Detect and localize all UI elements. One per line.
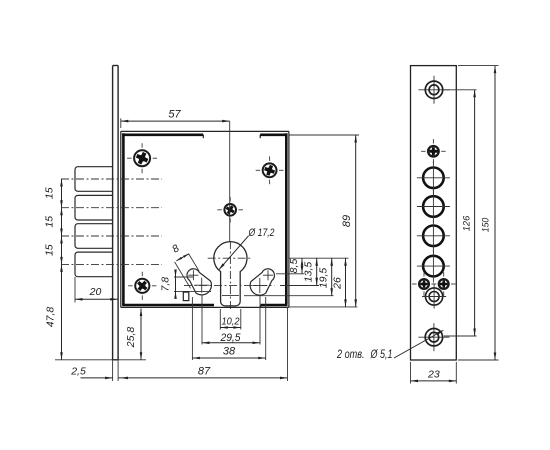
svg-text:25,8: 25,8 bbox=[125, 327, 137, 349]
svg-text:126: 126 bbox=[461, 215, 472, 231]
svg-text:89: 89 bbox=[341, 215, 353, 227]
svg-text:150: 150 bbox=[481, 217, 492, 232]
svg-text:47,8: 47,8 bbox=[45, 307, 57, 328]
svg-text:8: 8 bbox=[170, 242, 182, 255]
svg-text:20: 20 bbox=[89, 286, 102, 298]
svg-text:2 отв.: 2 отв. bbox=[336, 349, 364, 361]
svg-text:13,5: 13,5 bbox=[303, 262, 315, 283]
svg-text:38: 38 bbox=[223, 346, 236, 358]
svg-text:7,8: 7,8 bbox=[160, 277, 172, 292]
svg-text:57: 57 bbox=[168, 109, 181, 121]
svg-text:29,5: 29,5 bbox=[220, 332, 242, 344]
svg-text:10,2: 10,2 bbox=[222, 315, 240, 327]
svg-text:15: 15 bbox=[44, 244, 56, 256]
svg-text:8,5: 8,5 bbox=[288, 259, 300, 274]
svg-text:Ø 5,1: Ø 5,1 bbox=[370, 349, 393, 361]
svg-text:2,5: 2,5 bbox=[70, 366, 86, 378]
svg-text:Ø 17,2: Ø 17,2 bbox=[248, 227, 275, 239]
svg-text:23: 23 bbox=[427, 368, 440, 380]
svg-text:19,5: 19,5 bbox=[318, 268, 330, 289]
svg-text:87: 87 bbox=[198, 365, 211, 377]
svg-text:15: 15 bbox=[44, 187, 56, 199]
svg-text:15: 15 bbox=[44, 216, 56, 228]
svg-text:26: 26 bbox=[332, 277, 344, 290]
